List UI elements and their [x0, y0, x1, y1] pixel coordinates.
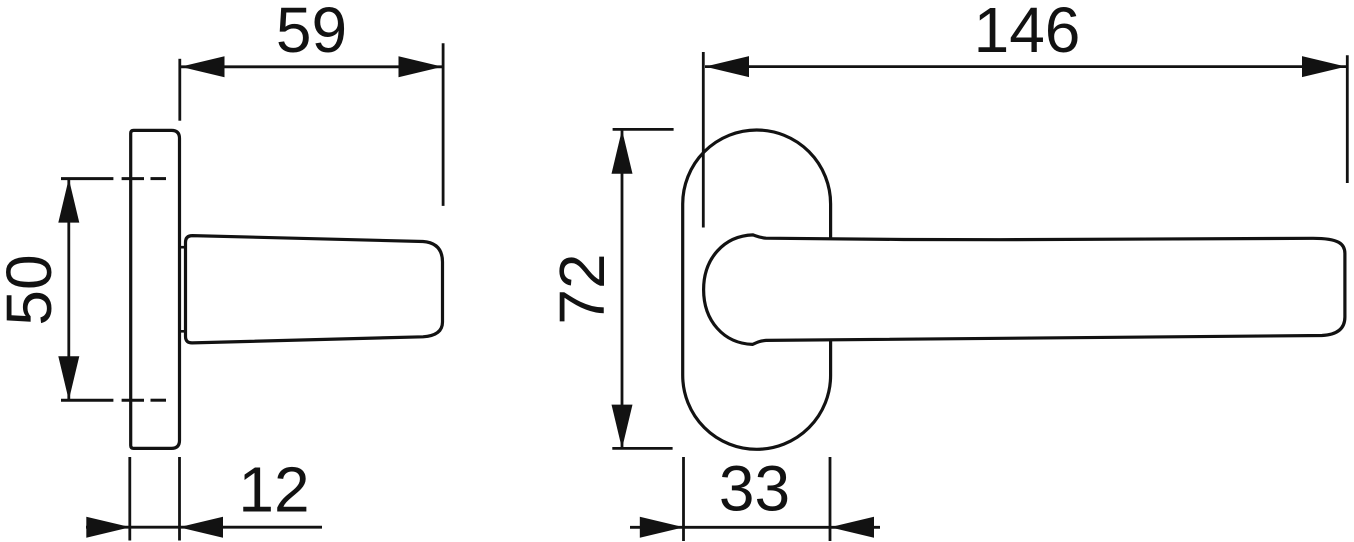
svg-text:50: 50 — [0, 254, 65, 325]
svg-text:33: 33 — [719, 453, 790, 525]
svg-text:146: 146 — [974, 0, 1081, 66]
svg-text:59: 59 — [276, 0, 347, 66]
svg-text:12: 12 — [238, 454, 309, 526]
svg-text:72: 72 — [546, 253, 618, 324]
